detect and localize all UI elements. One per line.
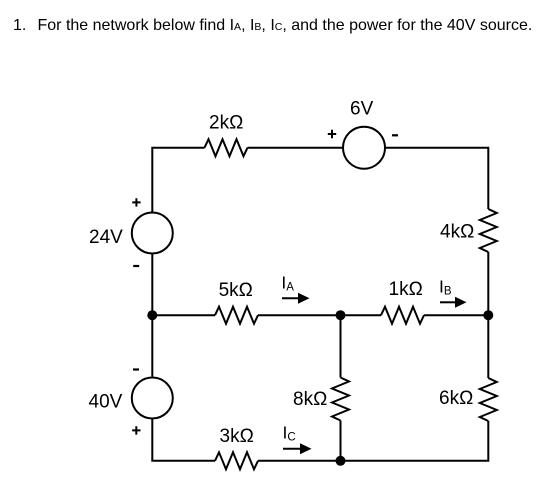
wire: right rail lower segment through bottom-right corner to bottom node — [341, 421, 489, 461]
current arrow IC — [283, 448, 300, 450]
svg-text:24V: 24V — [89, 227, 123, 248]
title: problem statement — [0, 0, 547, 1]
polarity: plus sign left of 6V source — [328, 130, 336, 138]
node: junction dot right-middle — [483, 310, 493, 320]
current arrow IA — [282, 297, 300, 299]
polarity: plus sign below 40V source — [132, 426, 140, 434]
resistor R 2k zigzag — [205, 139, 248, 156]
wire: bottom rail from 3k resistor to bottom node — [258, 460, 341, 462]
polarity: minus sign below 24V source — [133, 265, 139, 267]
wire: center branch from 8k down to bottom node — [340, 421, 342, 461]
resistor R 8k zigzag — [332, 378, 349, 421]
wire: right rail from 4k to middle-right node — [487, 252, 489, 315]
svg-text:1kΩ: 1kΩ — [389, 279, 423, 300]
resistor R 4k zigzag — [480, 209, 497, 252]
svg-text:3kΩ: 3kΩ — [220, 426, 254, 447]
svg-text:40V: 40V — [89, 392, 123, 413]
node: junction dot bottom-center — [336, 456, 346, 466]
polarity: minus sign right of 6V source — [392, 134, 398, 136]
svg-text:IC: IC — [283, 422, 296, 443]
svg-text:IB: IB — [439, 276, 452, 297]
wire: middle rail from 1k resistor to right node — [424, 314, 488, 316]
svg-text:2kΩ: 2kΩ — [209, 113, 243, 134]
wire: left rail lower segment through bottom-left corner to 3k resistor — [152, 419, 215, 461]
wire: middle rail from center node to 1k resistor — [341, 314, 382, 316]
svg-text:5kΩ: 5kΩ — [219, 280, 253, 301]
polarity: plus sign above 24V source — [132, 198, 140, 206]
voltage source 40V circle — [132, 378, 173, 419]
node: junction dot center-middle — [336, 310, 346, 320]
svg-text:4kΩ: 4kΩ — [440, 221, 474, 242]
svg-text:6V: 6V — [350, 99, 374, 120]
wire: left rail between middle node and 40V source — [151, 315, 153, 377]
wire: top rail from 2k resistor to 6V source — [248, 147, 344, 149]
wire: top rail from 6V source through top-right corner to 4k resistor — [385, 148, 488, 209]
polarity: minus sign above 40V source — [133, 368, 139, 370]
svg-text:6kΩ: 6kΩ — [439, 388, 473, 409]
current arrow IB — [440, 301, 455, 303]
resistor R 3k zigzag — [215, 452, 258, 469]
resistor R 1k zigzag — [381, 307, 424, 324]
wire: middle rail from 5k resistor to center node — [258, 314, 341, 316]
wire: top rail left segment and top-left corner down to 24V source — [152, 148, 204, 213]
node: junction dot left-middle — [147, 310, 157, 320]
wire: left rail between 24V source and middle node — [151, 254, 153, 316]
wire: center branch from center node down to 8k — [340, 315, 342, 377]
resistor R 5k zigzag — [215, 307, 258, 324]
svg-text:IA: IA — [281, 273, 294, 294]
wire: right rail from middle-right node to 6k — [487, 315, 489, 378]
wire: middle rail from left node to 5k resistor — [152, 314, 215, 316]
svg-text:8kΩ: 8kΩ — [293, 389, 327, 410]
voltage source 6V circle — [343, 127, 385, 169]
resistor R 6k zigzag — [480, 378, 497, 421]
voltage source 24V circle — [132, 213, 173, 254]
